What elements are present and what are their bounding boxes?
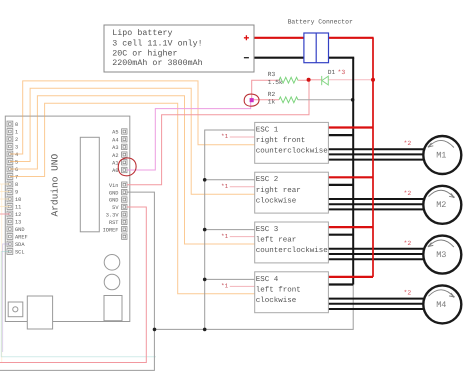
resistor R3 leads (pink) (252, 80, 309, 100)
wire stub pin8 (pale) (0, 183, 10, 185)
motor wires ESC2-M2 (328, 199, 424, 209)
svg-text:ESC 3: ESC 3 (256, 225, 279, 234)
junction dot GND bottom (153, 328, 157, 332)
IC chip rectangle inside Arduino (80, 137, 99, 232)
ESC3 +V wire (red) (328, 226, 373, 228)
battery plus terminal (244, 35, 249, 40)
motor wires ESC4-M4 (328, 299, 424, 309)
wire Vin to D1 junction (pink) (127, 80, 309, 185)
svg-text:ESC 1: ESC 1 (256, 125, 279, 134)
svg-text:M3: M3 (436, 250, 446, 260)
svg-text:0: 0 (15, 122, 18, 128)
svg-text:right rear: right rear (256, 186, 301, 195)
svg-text:*1: *1 (221, 183, 229, 190)
svg-text:IOREF: IOREF (103, 227, 119, 233)
motor wires ESC3-M3 (328, 249, 424, 259)
svg-text:A3: A3 (112, 145, 118, 151)
svg-text:left rear: left rear (256, 236, 297, 245)
svg-text:3: 3 (15, 145, 18, 151)
svg-text:right front: right front (256, 136, 306, 145)
ESC 1 box (255, 122, 329, 163)
junction dot R2 to GND bus (351, 98, 355, 102)
Lipo battery box B1 (104, 25, 254, 72)
svg-text:M2: M2 (436, 200, 446, 210)
svg-text:ESC 4: ESC 4 (256, 275, 279, 284)
junction dot bus ESC4 (203, 278, 207, 282)
svg-text:1k: 1k (268, 99, 276, 106)
svg-text:7: 7 (15, 175, 18, 181)
signal ground bus (gray) (155, 130, 354, 329)
svg-text:10: 10 (15, 197, 21, 203)
svg-text:*2: *2 (404, 290, 412, 297)
pale vertical run at left edge (1, 184, 3, 362)
svg-text:GND: GND (15, 227, 25, 233)
svg-text:GND: GND (109, 198, 119, 204)
resistor R3 zigzag (279, 77, 298, 83)
note leader ESC4 *1 (230, 285, 255, 287)
note leader ESC1 *1 (230, 136, 255, 138)
svg-text:*3: *3 (338, 69, 346, 76)
svg-text:*2: *2 (404, 240, 412, 247)
diode D1 leads (pink) (309, 79, 322, 81)
junction dot bus bottom (203, 328, 207, 332)
svg-text:clockwise: clockwise (256, 196, 297, 205)
battery minus terminal (244, 57, 249, 59)
svg-text:A1: A1 (112, 161, 118, 167)
svg-text:M4: M4 (436, 300, 446, 310)
svg-text:R3: R3 (268, 71, 276, 78)
svg-text:13: 13 (15, 220, 21, 226)
Battery Connector J1 (blue) (304, 33, 329, 63)
svg-text:3.3V: 3.3V (106, 213, 120, 219)
wire SCL (teal) (1, 252, 156, 357)
ESC 3 box (255, 222, 329, 263)
right pin header squares (A5-A0, Vin..IOREF) (122, 129, 127, 240)
resistor R2 left lead (pink) (252, 99, 279, 101)
svg-text:A0: A0 (112, 168, 118, 174)
USB connector block (27, 296, 52, 329)
wire pin7 to ESC4 signal (orange) (10, 103, 255, 294)
svg-text:R2: R2 (268, 91, 276, 98)
svg-text:1.5k: 1.5k (268, 79, 283, 86)
svg-text:D1: D1 (328, 69, 336, 76)
ICSP header block (104, 296, 122, 321)
note leader ESC3 *1 (230, 236, 255, 238)
ESC3 ground wire (black) (328, 234, 353, 236)
svg-text:8: 8 (15, 182, 18, 188)
note leader ESC2 *1 (230, 186, 255, 188)
svg-text:Battery Connector: Battery Connector (288, 18, 353, 25)
ESC1 ground wire (black) (328, 134, 353, 136)
svg-text:RST: RST (109, 220, 119, 226)
svg-text:*1: *1 (221, 133, 229, 140)
annotation circle around A0 pin (red) (118, 158, 136, 176)
wire stub pin10 (pale) (0, 198, 10, 200)
svg-text:SCL: SCL (15, 250, 25, 256)
wire pin5 to ESC2 signal (orange) (10, 88, 255, 194)
crystal circle 2 (104, 274, 120, 290)
wire A0 to divider node (magenta) (127, 100, 251, 170)
svg-text:Lipo battery: Lipo battery (112, 28, 172, 38)
svg-text:M1: M1 (436, 150, 446, 160)
motor M4 (423, 285, 461, 323)
svg-text:A2: A2 (112, 153, 118, 159)
ESC 2 box (255, 172, 329, 213)
motor M3 (423, 236, 461, 274)
junction dot bus ESC2 (203, 178, 207, 182)
Arduino UNO board U1 body (5, 116, 130, 321)
svg-text:counterclockwise: counterclockwise (256, 246, 328, 255)
svg-text:5V: 5V (112, 205, 119, 211)
ESC 4 box (255, 272, 329, 313)
svg-text:2200mAh or 3800mAh: 2200mAh or 3800mAh (112, 58, 203, 68)
motor M2 (423, 186, 461, 224)
svg-text:SDA: SDA (15, 242, 25, 248)
svg-text:1: 1 (15, 130, 18, 136)
resistor R2 right lead (gray) (298, 99, 353, 101)
wire pin4 to ESC1 signal (orange) (10, 81, 255, 154)
svg-text:ESC 2: ESC 2 (256, 175, 279, 184)
wire 5V loop to bottom (pink) (0, 207, 146, 363)
svg-text:A4: A4 (112, 137, 118, 143)
motor M1 (423, 136, 461, 174)
svg-text:clockwise: clockwise (256, 296, 297, 305)
wire GND from Arduino (gray) (0, 192, 154, 370)
ESC2 +V wire (red) (328, 176, 373, 178)
motor wires ESC1-M1 (328, 149, 424, 159)
junction dot D1 to +V bus (371, 78, 375, 82)
wire SDA (purple) (3, 244, 10, 352)
wire D1 anode to +V bus (pink) (328, 79, 373, 81)
resistor R2 zigzag (279, 97, 298, 103)
node A0 divider (magenta square) (250, 98, 254, 102)
svg-text:20C or higher: 20C or higher (112, 48, 177, 58)
svg-text:2: 2 (15, 137, 18, 143)
wire pin6 to ESC3 signal (orange) (10, 96, 255, 244)
svg-text:GND: GND (109, 190, 119, 196)
svg-text:AREF: AREF (15, 235, 28, 241)
svg-text:*2: *2 (404, 140, 412, 147)
svg-text:*1: *1 (221, 233, 229, 240)
svg-text:12: 12 (15, 212, 21, 218)
wire stub pin9 (pale) (0, 191, 10, 193)
ESC4 +V wire (red) (328, 276, 373, 278)
+11.1V power bus (red vertical) (372, 38, 374, 277)
left pin header squares (digital pins 0-13,GND,AREF,SDA,SCL) (7, 121, 13, 254)
battery plus wire and +V bus (red) (254, 37, 374, 39)
svg-text:*1: *1 (221, 283, 229, 290)
svg-text:9: 9 (15, 190, 18, 196)
ESC4 ground wire (black) (328, 283, 353, 285)
ESC2 ground wire (black) (328, 184, 353, 186)
diode D1 symbol (322, 76, 329, 85)
annotation circle around divider node (red) (244, 94, 259, 106)
wire stub pin12 (pink) (0, 213, 10, 215)
svg-text:*2: *2 (404, 190, 412, 197)
svg-text:11: 11 (15, 205, 21, 211)
left pin labels (15, 122, 28, 256)
power jack (8, 302, 23, 317)
GND power bus (black vertical) (352, 58, 354, 285)
svg-text:counterclockwise: counterclockwise (256, 147, 328, 156)
ESC1 +V wire (red) (328, 126, 373, 128)
svg-text:5: 5 (15, 160, 18, 166)
battery minus wire (black) (254, 57, 354, 59)
svg-text:4: 4 (15, 152, 18, 158)
svg-text:3 cell 11.1V only!: 3 cell 11.1V only! (112, 38, 203, 48)
svg-text:A5: A5 (112, 130, 118, 136)
crystal circle 1 (104, 254, 120, 270)
wire stub pin11 (pale) (0, 206, 10, 208)
svg-text:Vin: Vin (109, 183, 119, 189)
svg-text:left front: left front (256, 285, 301, 294)
junction dot R3/D1/Vin (307, 78, 311, 82)
svg-text:Arduino UNO: Arduino UNO (50, 153, 61, 216)
right pin labels (103, 130, 120, 234)
junction dot bus ESC3 (203, 228, 207, 232)
svg-text:6: 6 (15, 167, 18, 173)
